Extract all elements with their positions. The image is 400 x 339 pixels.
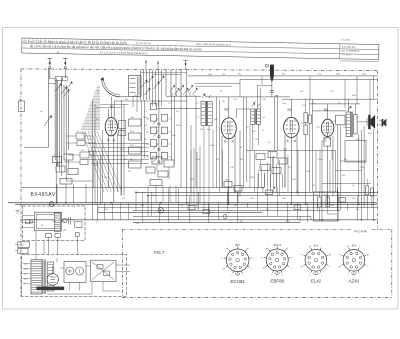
svg-text:1M: 1M <box>144 139 147 141</box>
svg-text:47p: 47p <box>312 103 315 105</box>
svg-text:4n7: 4n7 <box>146 157 149 159</box>
svg-text:R12: R12 <box>238 74 241 76</box>
svg-text:220p: 220p <box>282 103 286 105</box>
svg-text:10k: 10k <box>222 74 225 76</box>
volume control jack <box>158 208 163 213</box>
svg-text:220p: 220p <box>318 159 322 161</box>
left vertical wire bundle <box>54 80 56 160</box>
drops under B1 region <box>97 160 99 220</box>
svg-text:EL41: EL41 <box>311 279 322 284</box>
bus wire y212 <box>98 211 262 213</box>
svg-text:B4: B4 <box>324 108 328 112</box>
svg-text:R44: R44 <box>292 179 295 181</box>
padding capacitor boxes <box>76 133 85 139</box>
fig7 box top (dashed) <box>122 229 392 231</box>
svg-text:S6: S6 <box>152 101 154 103</box>
mid long vertical <box>186 70 188 203</box>
svg-text:100k: 100k <box>120 149 124 151</box>
wire h83 pair <box>195 83 240 85</box>
svg-text:EBF80: EBF80 <box>270 279 284 284</box>
lower ladder boxes <box>152 157 162 164</box>
svg-text:R22: R22 <box>300 91 303 93</box>
rectifier tube B5 AZ41 <box>47 274 58 285</box>
svg-text:100k: 100k <box>300 123 304 125</box>
svg-text:C28: C28 <box>130 117 133 119</box>
band wires to ladder <box>88 143 149 145</box>
B4 pin crosses <box>324 138 326 140</box>
wire h111 <box>312 110 346 112</box>
switch feed wires <box>49 77 56 79</box>
svg-text:C9: C9 <box>77 131 79 133</box>
svg-text:1M: 1M <box>222 101 225 103</box>
svg-text:C71: C71 <box>122 198 125 200</box>
tuning gang arc <box>102 78 121 97</box>
B4 cathode box <box>324 138 331 147</box>
output choke unit <box>91 260 117 281</box>
fig7 box left (dashed) <box>121 230 123 298</box>
svg-text:47p: 47p <box>356 209 359 211</box>
right lower horizontals <box>340 160 366 162</box>
mid wire h96 <box>166 95 201 97</box>
middle vertical bundle from top border <box>140 70 142 100</box>
external speaker jack <box>382 119 384 126</box>
svg-text:5600: 5600 <box>352 95 356 97</box>
svg-text:220V: 220V <box>19 245 24 247</box>
parts value table <box>22 38 379 62</box>
bus wire y210 <box>133 209 340 211</box>
inline bus components <box>266 190 273 195</box>
bus wire y196 <box>148 195 377 197</box>
bus wire y216 <box>133 215 311 217</box>
left lower component cluster <box>53 157 62 163</box>
fb risers <box>315 150 317 192</box>
svg-text:1M: 1M <box>255 139 258 141</box>
wire h104 <box>310 103 360 105</box>
svg-text:1n5: 1n5 <box>306 209 309 211</box>
AF coupling resistors <box>304 113 307 123</box>
svg-text:2x45: 2x45 <box>196 159 200 161</box>
socket diagram B4 EL41 <box>301 243 333 283</box>
power transformer <box>31 260 42 294</box>
bus interconnect drops <box>135 192 137 210</box>
svg-text:21 0 0 44 2 8: 21 0 0 44 2 8 <box>136 42 151 45</box>
HT rail wire 2 <box>240 78 377 80</box>
svg-text:1n5: 1n5 <box>262 117 265 119</box>
svg-text:47p: 47p <box>180 205 183 207</box>
svg-text:s: s <box>321 274 322 276</box>
svg-text:2625 1090 48 5: 2625 1090 48 56 304452 81 4 <box>196 42 231 47</box>
lower right resistors <box>366 186 369 195</box>
svg-text:BX485AV: BX485AV <box>31 192 56 198</box>
svg-text:R33: R33 <box>88 139 91 141</box>
svg-text:B 4: B 4 <box>314 243 319 247</box>
B1 anode wire <box>114 100 187 102</box>
AVC network cluster <box>256 154 265 160</box>
svg-text:50k: 50k <box>146 119 149 121</box>
HT verticals <box>239 79 241 97</box>
box column stubs <box>66 135 76 137</box>
switch harness fan <box>82 131 104 192</box>
bus wire y203 (chassis) <box>8 202 377 204</box>
loudspeaker <box>368 115 370 129</box>
svg-text:2x45: 2x45 <box>208 74 212 76</box>
chassis border left (dash-dot) <box>20 69 22 297</box>
bus wire y222 <box>133 221 300 223</box>
svg-text:470: 470 <box>315 195 318 197</box>
svg-text:82k: 82k <box>240 159 243 161</box>
svg-text:C84: C84 <box>286 221 289 223</box>
svg-text:1M: 1M <box>134 95 137 97</box>
B2 drops <box>221 136 223 188</box>
IF transformer S1 <box>201 102 206 126</box>
svg-text:458: 458 <box>200 129 203 131</box>
svg-text:0,1: 0,1 <box>196 103 199 105</box>
mid lower verticals <box>203 126 205 210</box>
coupling box <box>336 115 345 125</box>
left edge terminals <box>18 242 30 248</box>
OT drops <box>358 134 360 204</box>
svg-text:C31: C31 <box>130 145 133 147</box>
IF transformer S2 <box>251 109 255 124</box>
ferrite rod antenna <box>270 65 274 77</box>
tube B1 ECH81 <box>105 117 117 135</box>
B3 pin crosses <box>287 140 289 142</box>
speaker drop <box>373 129 375 220</box>
tuning capacitor plate stack <box>97 85 100 87</box>
svg-text:5600: 5600 <box>336 74 340 76</box>
trimmer capacitors left <box>142 81 147 87</box>
svg-text:N 2 31 8: N 2 31 8 <box>342 54 351 56</box>
svg-text:1M: 1M <box>240 221 243 223</box>
svg-text:82k: 82k <box>266 209 269 211</box>
svg-text:47p: 47p <box>318 74 321 76</box>
dipole symbol mid <box>183 59 188 61</box>
B3 drops <box>284 136 286 188</box>
solder junction dots <box>110 202 112 204</box>
svg-text:220p: 220p <box>330 205 334 207</box>
svg-text:C49: C49 <box>225 180 228 182</box>
svg-text:4n7: 4n7 <box>144 125 147 127</box>
chassis border top (dash-dot) <box>21 69 377 71</box>
svg-text:C66: C66 <box>63 230 66 232</box>
fig7 box bottom (dashed) <box>122 297 392 299</box>
feedback network box <box>313 192 338 221</box>
antenna change-over switch <box>48 68 50 147</box>
wire h99 right <box>282 98 377 100</box>
svg-text:100k: 100k <box>143 117 147 119</box>
IF resistor/cap ladder <box>158 100 160 163</box>
svg-text:1n5: 1n5 <box>136 223 139 225</box>
IFT2 link wires <box>252 124 254 150</box>
B2 verticals <box>242 97 244 188</box>
B1 cathode drops <box>107 141 109 188</box>
svg-text:S5: S5 <box>41 225 43 227</box>
oscillator coil box L2 <box>129 76 142 97</box>
svg-text:82k: 82k <box>338 103 341 105</box>
wire h150 long <box>246 149 335 151</box>
svg-text:2x45: 2x45 <box>52 221 56 223</box>
mid wire h108 <box>158 108 202 110</box>
left long vertical x48-ground <box>48 147 50 187</box>
top border stub terminals <box>145 63 147 71</box>
svg-text:1M: 1M <box>128 171 131 173</box>
svg-text:0,1: 0,1 <box>96 221 99 223</box>
AVC vertical bundle <box>258 170 260 188</box>
svg-text:100k: 100k <box>210 145 214 147</box>
svg-text:F-C-U-A: F-C-U-A <box>355 230 367 234</box>
B4 drops <box>327 146 329 204</box>
socket diagram B5 AZ41 <box>339 243 371 283</box>
border box left <box>19 101 25 112</box>
svg-text:2x45: 2x45 <box>252 102 256 104</box>
svg-text:R23: R23 <box>330 91 333 93</box>
svg-text:C51: C51 <box>252 131 255 133</box>
padder trimmer row <box>170 86 174 92</box>
svg-text:S14: S14 <box>130 131 133 133</box>
svg-text:k: k <box>321 246 322 248</box>
filter-to-psu drops <box>35 231 37 260</box>
tube B2 EBF80 <box>221 118 236 139</box>
svg-text:1n5: 1n5 <box>234 205 237 207</box>
small circle mid-bus <box>223 215 227 219</box>
svg-text:s: s <box>359 274 360 276</box>
output transformer <box>346 112 351 137</box>
tube B3 <box>284 117 299 137</box>
aerial lead-in wires <box>49 68 51 78</box>
svg-text:220p: 220p <box>362 74 366 76</box>
mid vertical bundle 2 <box>190 150 192 203</box>
svg-text:82k: 82k <box>282 74 285 76</box>
svg-text:ECH81: ECH81 <box>230 279 245 284</box>
svg-text:82k: 82k <box>344 159 347 161</box>
svg-text:K 47 052 614: K 47 052 614 <box>342 47 356 49</box>
svg-text:1M: 1M <box>124 159 127 161</box>
svg-text:B 1: B 1 <box>235 243 240 247</box>
wavechange switch arrows <box>55 85 60 91</box>
svg-text:R45: R45 <box>190 179 193 181</box>
svg-text:FIG.7: FIG.7 <box>154 250 165 255</box>
svg-text:220p: 220p <box>250 198 254 200</box>
pre-B2 vertical pair <box>216 97 218 188</box>
B2 pin crosses <box>224 141 226 143</box>
svg-text:47p: 47p <box>152 195 155 197</box>
mid drops <box>195 96 197 187</box>
bus junction drop ticks <box>141 192 143 222</box>
svg-text:AC 4-2156-88 40: AC 4-2156-88 40 <box>342 49 360 52</box>
svg-text:1n5: 1n5 <box>312 185 315 187</box>
svg-text:s: s <box>290 268 291 270</box>
svg-text:220p: 220p <box>176 125 180 127</box>
svg-text:K: K <box>57 51 59 55</box>
svg-text:4n7: 4n7 <box>176 111 179 113</box>
heater bar <box>36 287 64 291</box>
svg-text:4n7: 4n7 <box>146 131 149 133</box>
grid box right of B1 <box>119 121 126 129</box>
svg-text:2x45: 2x45 <box>282 198 286 200</box>
svg-text:B2: B2 <box>225 108 229 112</box>
svg-text:R9: R9 <box>130 159 132 161</box>
socket diagram B1 ECH81 <box>221 243 254 284</box>
mains filter box (dashed) <box>23 206 86 241</box>
svg-text:82k: 82k <box>96 119 99 121</box>
vertical x312 <box>312 99 314 192</box>
bus wire y192 <box>136 191 377 193</box>
B3 area verticals <box>284 150 286 187</box>
svg-text:AZ41: AZ41 <box>348 279 360 284</box>
ground symbol left <box>16 210 20 212</box>
detector RC cluster <box>224 182 232 188</box>
aerial terminals A1 A2 <box>48 57 53 59</box>
svg-text:kc/s: kc/s <box>207 129 210 131</box>
svg-text:1n: 1n <box>352 185 354 187</box>
ladder side verticals <box>141 100 143 162</box>
fig7 box right (dashed) <box>391 230 393 298</box>
socket diagram B2-3 EBF80 <box>261 243 294 284</box>
HT rail wire <box>188 75 377 77</box>
svg-text:2x45: 2x45 <box>140 205 144 207</box>
fb box feeds <box>319 150 321 192</box>
gang link wire <box>120 96 128 98</box>
mains filter transformer <box>34 212 61 231</box>
svg-text:ac: ac <box>19 251 21 253</box>
svg-text:220p: 220p <box>360 167 364 169</box>
tube B4 EL41 <box>321 119 333 136</box>
psu internal wires <box>56 258 58 262</box>
svg-text:1M: 1M <box>216 159 219 161</box>
svg-text:B3: B3 <box>288 108 292 112</box>
OT top wires <box>347 99 349 112</box>
svg-text:K 4-0462: K 4-0462 <box>341 39 351 41</box>
left long vertical <box>55 78 57 203</box>
svg-text:0,1: 0,1 <box>144 111 147 113</box>
svg-text:R50: R50 <box>352 198 355 200</box>
bus wire y207 <box>98 206 377 208</box>
switch contact boxes <box>55 77 61 81</box>
tube-ladder vertical pair <box>121 100 123 196</box>
wire h97 middle <box>205 96 290 98</box>
bus wire y188 <box>21 187 263 189</box>
svg-text:B 2-3: B 2-3 <box>274 243 282 247</box>
chassis border right (dash-dot) <box>376 71 378 230</box>
svg-text:B1: B1 <box>110 104 114 108</box>
tap lead wires <box>23 263 32 265</box>
pilot lamp circle <box>49 202 54 207</box>
svg-text:R3: R3 <box>57 164 59 166</box>
mains filter components <box>25 220 29 224</box>
smoothing capacitors <box>64 262 86 283</box>
svg-text:B 5: B 5 <box>352 243 357 247</box>
power supply box (dashed) <box>22 255 127 297</box>
coil bank verticals <box>92 100 94 220</box>
bus wire y204 <box>15 203 377 205</box>
right lower frame box <box>345 141 366 163</box>
svg-text:2x45: 2x45 <box>104 209 108 211</box>
svg-text:C11: C11 <box>81 150 84 152</box>
arc-coil link wires <box>100 104 129 106</box>
svg-text:5600: 5600 <box>88 151 92 153</box>
svg-text:k: k <box>359 246 360 248</box>
ferrite rod leads <box>259 88 261 109</box>
bus wire y220 <box>21 219 377 221</box>
svg-text:s: s <box>251 268 252 270</box>
B1 grid wire <box>110 97 112 117</box>
B4 grid wire <box>334 120 336 122</box>
